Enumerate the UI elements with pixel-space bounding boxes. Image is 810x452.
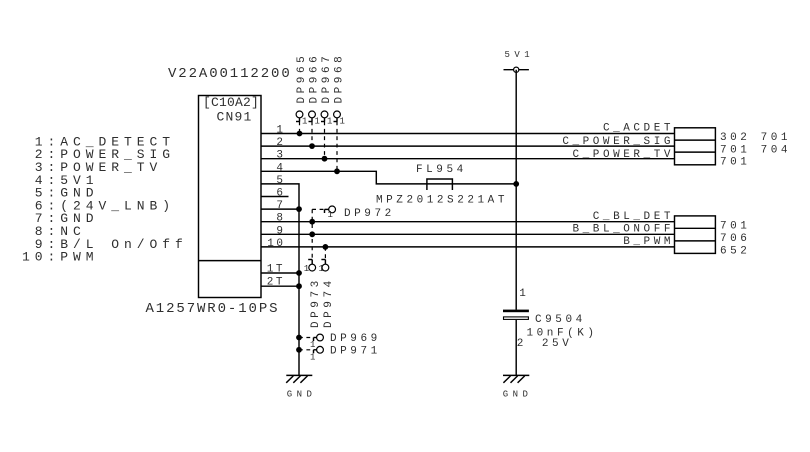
pin 1T junction xyxy=(296,270,302,276)
pin 5 wire to ground rail xyxy=(262,184,300,376)
svg-text:652: 652 xyxy=(720,246,750,258)
DP968 dashed lead xyxy=(336,122,338,172)
svg-text:706: 706 xyxy=(720,233,750,245)
pin 1T wire to ground rail xyxy=(262,272,300,274)
dummy pattern DP965 xyxy=(296,111,307,127)
dummy pattern DP973 xyxy=(304,260,316,275)
dummy pattern DP974 xyxy=(319,260,329,275)
pin 2T junction xyxy=(296,283,302,289)
ferrite bead FL954 xyxy=(427,179,453,190)
pin 6 stub wire (24V_LNB) xyxy=(262,196,289,198)
pin 10 wire net B_PWM xyxy=(262,246,675,248)
svg-text:B_BL_ONOFF: B_BL_ONOFF xyxy=(572,223,674,235)
svg-text:DP969: DP969 xyxy=(330,333,381,345)
dummy pattern DP966 xyxy=(309,111,320,127)
svg-text:B_PWM: B_PWM xyxy=(623,236,674,248)
svg-text:10: 10 xyxy=(267,238,285,250)
DP969 junction on ground rail xyxy=(296,335,302,341)
svg-text:3: 3 xyxy=(276,150,285,162)
svg-text:DP973: DP973 xyxy=(310,277,322,328)
svg-text:701: 701 xyxy=(720,221,750,233)
svg-text:DP971: DP971 xyxy=(330,345,381,357)
junction of FL954 output with 5V1 rail xyxy=(513,181,519,187)
capacitor bottom wire to ground xyxy=(515,320,517,376)
svg-text:MPZ2012S221AT: MPZ2012S221AT xyxy=(376,194,508,206)
pin 2 wire net C_POWER_SIG xyxy=(262,145,675,147)
svg-text:1: 1 xyxy=(328,210,333,220)
dummy pattern DP969 xyxy=(310,334,323,350)
pin 7 wire to ground rail xyxy=(262,208,300,210)
svg-text:5: 5 xyxy=(276,175,285,187)
DP965 dashed lead xyxy=(299,122,301,134)
off-page connector box upper xyxy=(675,128,716,165)
svg-text:1: 1 xyxy=(327,117,332,127)
pin 8 wire net C_BL_DET xyxy=(262,221,675,223)
svg-text:302 701: 302 701 xyxy=(720,132,791,144)
svg-text:DP966: DP966 xyxy=(309,53,321,104)
ground symbol left xyxy=(286,375,312,382)
connector CN91 body xyxy=(199,96,262,298)
svg-text:GND: GND xyxy=(287,390,317,400)
dummy pattern DP971 xyxy=(310,346,323,362)
pin 7 junction xyxy=(296,206,302,212)
svg-text:1: 1 xyxy=(519,288,528,300)
svg-text:1T: 1T xyxy=(267,264,285,276)
DP965 junction on pin 1 xyxy=(297,131,303,137)
DP974 dashed lead xyxy=(324,247,326,260)
capacitor C9504 xyxy=(503,310,529,320)
svg-text:GND: GND xyxy=(503,390,533,400)
dashed net DP972/DP973 vertical xyxy=(311,209,313,259)
DP969 dashed lead xyxy=(299,337,314,339)
DP966 junction on pin 2 xyxy=(309,143,315,149)
svg-text:C9504: C9504 xyxy=(535,314,586,326)
svg-text:2: 2 xyxy=(517,338,526,350)
svg-text:1: 1 xyxy=(340,117,345,127)
svg-text:1: 1 xyxy=(276,125,285,137)
dummy pattern DP967 xyxy=(321,111,332,127)
dummy pattern DP972 xyxy=(325,206,336,220)
off-page connector box lower xyxy=(675,216,716,254)
svg-text:7: 7 xyxy=(276,200,285,212)
svg-text:C_POWER_SIG: C_POWER_SIG xyxy=(562,136,674,148)
svg-text:C_BL_DET: C_BL_DET xyxy=(593,211,674,223)
svg-text:5V1: 5V1 xyxy=(505,50,535,60)
pin 4 wire to FL954 xyxy=(262,171,517,184)
pin 9 wire net B_BL_ONOFF xyxy=(262,233,675,235)
pin 3 wire net C_POWER_TV xyxy=(262,158,675,160)
DP971 dashed lead xyxy=(299,349,314,351)
pin 2T wire to ground rail xyxy=(262,285,300,287)
svg-text:C_ACDET: C_ACDET xyxy=(603,123,674,135)
svg-text:25V: 25V xyxy=(542,338,572,350)
DP967 junction on pin 3 xyxy=(322,156,328,162)
DP972 dashed lead horizontal xyxy=(312,208,324,210)
svg-text:A1257WR0-10PS: A1257WR0-10PS xyxy=(146,301,280,317)
dummy pattern DP968 xyxy=(334,111,345,127)
svg-text:4: 4 xyxy=(276,162,285,174)
svg-text:DP965: DP965 xyxy=(296,53,308,104)
svg-text:1: 1 xyxy=(310,340,315,350)
svg-text:V22A00112200: V22A00112200 xyxy=(168,66,292,82)
svg-text:6: 6 xyxy=(276,188,285,200)
pin 1 wire net C_ACDET xyxy=(262,133,675,135)
svg-text:DP967: DP967 xyxy=(321,53,333,104)
DP967 dashed lead xyxy=(324,122,326,159)
svg-text:CN91: CN91 xyxy=(217,110,253,125)
junction on pin 10 xyxy=(323,244,329,250)
svg-text:DP974: DP974 xyxy=(323,277,335,328)
svg-text:701: 701 xyxy=(720,157,750,169)
svg-text:701 704: 701 704 xyxy=(720,144,791,156)
power symbol 5V1 xyxy=(504,67,529,72)
svg-text:1: 1 xyxy=(315,117,320,127)
svg-text:C_POWER_TV: C_POWER_TV xyxy=(572,149,674,161)
DP968 junction on pin 4 xyxy=(334,168,340,174)
DP966 dashed lead xyxy=(311,122,313,147)
5V1 rail wire upper xyxy=(515,70,517,310)
svg-text:2: 2 xyxy=(276,137,285,149)
svg-text:1: 1 xyxy=(304,264,309,274)
svg-text:[C10A2]: [C10A2] xyxy=(203,95,259,110)
DP971 junction on ground rail xyxy=(296,347,302,353)
svg-text:9: 9 xyxy=(276,225,285,237)
svg-text:FL954: FL954 xyxy=(416,164,467,176)
svg-text:DP972: DP972 xyxy=(344,208,395,220)
svg-text:DP968: DP968 xyxy=(334,53,346,104)
junction on pin 8 xyxy=(309,219,315,225)
svg-text:1: 1 xyxy=(319,264,324,274)
svg-text:10:PWM: 10:PWM xyxy=(22,250,99,265)
svg-text:8: 8 xyxy=(276,213,285,225)
svg-text:1: 1 xyxy=(302,117,307,127)
ground symbol right xyxy=(503,375,529,382)
junction on pin 9 xyxy=(309,231,315,237)
svg-text:2T: 2T xyxy=(267,277,285,289)
svg-text:1: 1 xyxy=(310,352,315,362)
